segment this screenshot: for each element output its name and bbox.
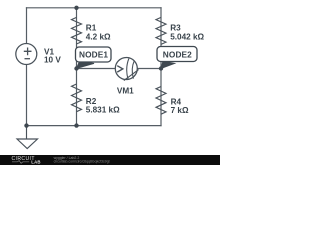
VM1 needle (124, 70, 139, 81)
node NODE2 box (157, 47, 197, 62)
wire R4 column (160, 69, 162, 126)
voltage source V1 circle (16, 44, 37, 65)
svg-text:10 V: 10 V (44, 55, 61, 64)
svg-text:4.2 kΩ: 4.2 kΩ (86, 33, 111, 42)
node2 flag pointer (161, 61, 175, 68)
wire R3 column (160, 8, 162, 69)
svg-text:5.831 kΩ: 5.831 kΩ (86, 106, 120, 115)
resistor R1 (72, 17, 82, 44)
voltmeter VM1 circle (115, 58, 137, 80)
node NODE1 box (76, 47, 112, 62)
junction dot bottom R2 (74, 123, 78, 127)
VM1 meter arc right (132, 61, 134, 79)
wire top rail (27, 7, 162, 9)
footer logo squiggle (12, 161, 29, 164)
junction dot ground (24, 123, 28, 127)
svg-text:circuitlab.com/circ/c6qq8Gqkcf: circuitlab.com/circ/c6qq8Gqkcf3s9gt (54, 159, 110, 163)
svg-text:LAB: LAB (31, 159, 40, 164)
junction dot node2 (159, 66, 163, 70)
wire middle (node1 to node2 through VM1) (77, 68, 162, 70)
wire R1 column (76, 8, 78, 69)
svg-text:NODE1: NODE1 (79, 50, 108, 60)
ground (17, 126, 38, 149)
svg-text:R1: R1 (86, 23, 97, 32)
svg-text:NODE2: NODE2 (163, 49, 192, 59)
junction dot node1 (74, 66, 78, 70)
resistor R3 (156, 17, 166, 44)
wire left rail lower (26, 65, 28, 126)
resistor R2 (72, 84, 82, 112)
svg-text:5.042 kΩ: 5.042 kΩ (170, 32, 204, 41)
V1 minus sign (25, 58, 31, 60)
wire R2 column (76, 69, 78, 126)
VM1 meter arc left (127, 58, 129, 80)
wire bottom rail (27, 125, 162, 127)
wire left rail upper (26, 8, 28, 44)
V1 plus sign (24, 48, 32, 56)
svg-text:VM1: VM1 (117, 86, 134, 95)
svg-text:R3: R3 (170, 23, 181, 32)
svg-text:7 kΩ: 7 kΩ (171, 106, 189, 115)
junction dot top R1 (74, 6, 78, 10)
resistor R4 (156, 87, 166, 115)
node1 flag pointer (77, 61, 95, 68)
footer bar (0, 155, 220, 165)
VM1 plus terminal chevron (117, 66, 123, 72)
